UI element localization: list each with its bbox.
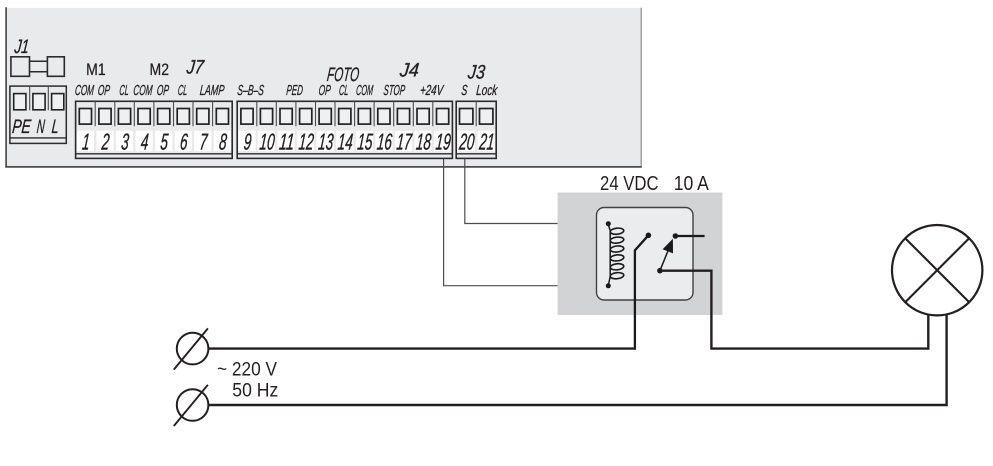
relay coil bbox=[608, 225, 624, 286]
pin label CL (M2) bbox=[177, 83, 188, 99]
mains terminal neutral (circle with slash) bbox=[174, 385, 209, 426]
svg-text:Lock: Lock bbox=[476, 83, 499, 99]
pin label Lock (J3) bbox=[476, 83, 499, 99]
terminal number 21 bbox=[478, 129, 496, 155]
svg-text:COM: COM bbox=[74, 83, 95, 99]
label FOTO bbox=[326, 64, 360, 86]
svg-text:M1: M1 bbox=[86, 60, 106, 79]
svg-text:13: 13 bbox=[317, 129, 334, 155]
svg-text:J7: J7 bbox=[185, 57, 206, 79]
relay K1 shaded background bbox=[558, 193, 723, 316]
terminal strip J7 (terminals 1-8) bbox=[76, 101, 233, 158]
pin label PED bbox=[286, 83, 304, 99]
lamp (flashing light) bbox=[892, 225, 982, 315]
svg-text:17: 17 bbox=[396, 129, 414, 155]
relay coil terminal dots bbox=[606, 221, 611, 288]
svg-text:10 A: 10 A bbox=[674, 172, 709, 195]
svg-text:COM: COM bbox=[133, 83, 154, 99]
svg-text:J4: J4 bbox=[398, 59, 420, 81]
pin label +24V bbox=[419, 83, 444, 99]
connector label J4 bbox=[398, 59, 420, 81]
pin label LAMP bbox=[199, 83, 225, 99]
svg-text:J1: J1 bbox=[13, 36, 31, 58]
svg-text:J3: J3 bbox=[466, 61, 486, 83]
svg-text:CL: CL bbox=[119, 83, 130, 99]
terminal number 4 bbox=[140, 129, 150, 155]
pin label COM (M2) bbox=[133, 83, 154, 99]
value label 24 VDC bbox=[600, 172, 659, 195]
terminal strip J4 (terminals 9-19) bbox=[237, 101, 452, 158]
wire mains neutral to lamp bbox=[209, 314, 947, 406]
svg-text:~ 220 V: ~ 220 V bbox=[217, 359, 277, 380]
svg-text:14: 14 bbox=[337, 129, 354, 155]
terminal number 6 bbox=[179, 129, 189, 155]
svg-text:11: 11 bbox=[278, 129, 295, 155]
connector label J3 bbox=[466, 61, 486, 83]
svg-text:20: 20 bbox=[458, 129, 476, 155]
svg-text:OP: OP bbox=[97, 83, 111, 99]
relay K1 body bbox=[597, 208, 694, 301]
terminal number 2 bbox=[100, 129, 110, 155]
terminal number 12 bbox=[298, 129, 315, 155]
relay moving contact arrow bbox=[657, 239, 673, 274]
terminal number 14 bbox=[337, 129, 354, 155]
svg-text:OP: OP bbox=[156, 83, 170, 99]
terminal number 5 bbox=[160, 129, 170, 155]
svg-text:15: 15 bbox=[356, 129, 373, 155]
wire terminal 20 to relay coil top bbox=[465, 158, 606, 223]
svg-text:12: 12 bbox=[298, 129, 315, 155]
relay NC contact stub bbox=[673, 233, 705, 239]
svg-text:LAMP: LAMP bbox=[199, 83, 225, 99]
terminal number 17 bbox=[396, 129, 414, 155]
svg-text:M2: M2 bbox=[150, 60, 170, 79]
svg-text:21: 21 bbox=[478, 129, 496, 155]
label ~ 220 V bbox=[217, 359, 277, 380]
terminal number 19 bbox=[435, 129, 452, 155]
terminal number 9 bbox=[243, 129, 253, 155]
mains terminal phase (circle with slash) bbox=[174, 328, 209, 369]
terminal number 7 bbox=[199, 129, 209, 155]
svg-text:OP: OP bbox=[318, 83, 332, 99]
terminal number 15 bbox=[356, 129, 373, 155]
terminal number 18 bbox=[415, 129, 432, 155]
svg-text:10: 10 bbox=[259, 129, 276, 155]
svg-text:COM: COM bbox=[355, 83, 374, 99]
pin label S-B-S bbox=[237, 83, 265, 99]
wire terminal 19 to relay coil bottom bbox=[444, 158, 606, 285]
label 50 Hz bbox=[232, 380, 278, 401]
svg-text:24 VDC: 24 VDC bbox=[600, 172, 659, 195]
label M1 bbox=[86, 60, 106, 79]
svg-text:50 Hz: 50 Hz bbox=[232, 380, 278, 401]
terminal number 11 bbox=[278, 129, 295, 155]
terminal strip J3 (terminals 20-21) bbox=[456, 101, 496, 158]
svg-text:18: 18 bbox=[415, 129, 432, 155]
fuse F1 bbox=[11, 57, 64, 77]
svg-text:+24V: +24V bbox=[419, 83, 444, 99]
svg-text:19: 19 bbox=[435, 129, 452, 155]
pin label COM (FOTO) bbox=[355, 83, 374, 99]
pin label CL (M1) bbox=[119, 83, 130, 99]
mains terminal block (PE N L) bbox=[10, 86, 66, 143]
svg-text:STOP: STOP bbox=[383, 83, 406, 99]
pin label STOP bbox=[383, 83, 406, 99]
terminal number 20 bbox=[458, 129, 476, 155]
label M2 bbox=[150, 60, 170, 79]
terminal number 10 bbox=[259, 129, 276, 155]
terminal number 16 bbox=[376, 129, 393, 155]
wire mains phase to relay common bbox=[209, 347, 635, 349]
svg-text:CL: CL bbox=[177, 83, 188, 99]
wire relay NO contact to lamp bbox=[660, 271, 928, 349]
pin label L bbox=[51, 116, 60, 138]
pin label OP (M2) bbox=[156, 83, 170, 99]
terminal number 3 bbox=[120, 129, 130, 155]
terminal number 1 bbox=[81, 129, 91, 155]
pin label PE bbox=[11, 116, 32, 138]
svg-text:16: 16 bbox=[376, 129, 393, 155]
relay common contact and wire down to mains bbox=[635, 233, 651, 350]
svg-text:PED: PED bbox=[286, 83, 304, 99]
pin label COM (M1) bbox=[74, 83, 95, 99]
connector label J1 bbox=[13, 36, 31, 58]
svg-text:S–B–S: S–B–S bbox=[237, 83, 265, 99]
pin label OP (M1) bbox=[97, 83, 111, 99]
value label 10 A bbox=[674, 172, 709, 195]
terminal number 8 bbox=[218, 129, 228, 155]
connector label J7 bbox=[185, 57, 206, 79]
pin label N bbox=[36, 116, 46, 138]
pin label S (J3) bbox=[461, 83, 469, 99]
pin label OP (FOTO) bbox=[318, 83, 332, 99]
svg-text:PE: PE bbox=[11, 116, 32, 138]
terminal number 13 bbox=[317, 129, 334, 155]
svg-text:CL: CL bbox=[338, 83, 349, 99]
control board outline bbox=[5, 7, 642, 167]
pin label CL (FOTO) bbox=[338, 83, 349, 99]
